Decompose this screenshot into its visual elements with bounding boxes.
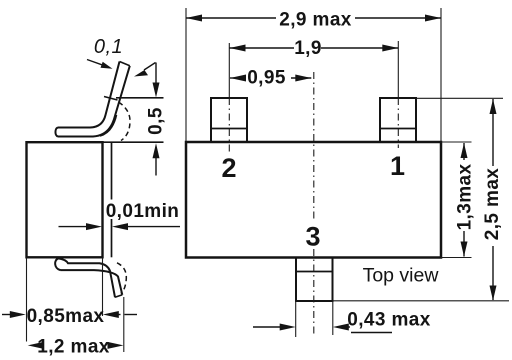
package body outline (top view): [186, 142, 441, 258]
lower lead alternate position (dashed arc): [117, 263, 126, 294]
dimension 2,5 max (vertical, far right): [416, 97, 503, 99]
dimension 1,3 max (vertical, right of body): [441, 141, 472, 143]
svg-text:1: 1: [390, 151, 405, 181]
body top line extension (0,5 lower reference): [103, 141, 164, 143]
svg-text:1,3max: 1,3max: [455, 164, 476, 231]
body centerline (through pin 3): [313, 72, 315, 221]
svg-text:Top view: Top view: [363, 265, 440, 287]
upper lead end cap: [55, 128, 58, 137]
svg-text:0,5: 0,5: [146, 107, 167, 135]
lower lead end cap: [55, 258, 60, 270]
package body outline (side view): [27, 142, 103, 257]
body right edge extension: [102, 258, 104, 317]
upper lead alternate position (dashed arc): [119, 102, 131, 141]
svg-text:0,95: 0,95: [247, 68, 286, 89]
dimension 1,2 max: [28, 342, 44, 349]
svg-text:0,85max: 0,85max: [27, 306, 105, 327]
pin 1 outline: [380, 98, 416, 142]
upper lead tip line: [120, 62, 130, 66]
lead tip extension: [123, 297, 125, 352]
pin 2 outline: [211, 98, 247, 142]
dimension 1,9: [230, 47, 295, 49]
leader arrow left (0,1): [87, 60, 103, 66]
svg-text:2,9 max: 2,9 max: [279, 10, 352, 31]
lower lead (bent down) upper edge: [59, 258, 116, 297]
leader arrow right (0,1): [144, 63, 156, 71]
svg-text:0,01min: 0,01min: [106, 201, 180, 222]
upper lead (bent up) inner edge: [58, 62, 120, 128]
lead plane vertical line: [111, 142, 113, 257]
pin 3 bend line: [296, 271, 333, 273]
lower lead tip line: [115, 295, 122, 298]
pin 2 centerline: [228, 43, 230, 97]
upper lead reference tick (0,5 level): [104, 97, 118, 101]
dimension 0,43 max (below pin 3): [295, 301, 297, 337]
upper lead outer edge: [58, 66, 130, 137]
svg-text:1,9: 1,9: [294, 38, 322, 59]
svg-text:1,2 max: 1,2 max: [37, 337, 110, 358]
dimension 0,5 (vertical): [116, 97, 164, 99]
dimension 2,9 max: [185, 8, 187, 141]
svg-text:2,5 max: 2,5 max: [482, 168, 503, 241]
dimension 0,01 min: [104, 200, 181, 220]
svg-text:0,43 max: 0,43 max: [347, 310, 431, 331]
svg-text:0,1: 0,1: [94, 36, 123, 58]
pin 1 centerline: [397, 41, 399, 97]
svg-text:3: 3: [305, 222, 320, 252]
pin 1 bend line: [380, 128, 416, 130]
upper lead far profile line: [100, 115, 117, 136]
dimension 0,85 max: [2, 314, 13, 316]
body left edge extension: [26, 258, 28, 342]
dimension 0,95: [230, 77, 246, 79]
pin 2 bend line: [211, 128, 247, 130]
pin 3 outline: [296, 258, 333, 302]
lower lead lower edge: [61, 270, 123, 295]
svg-text:2: 2: [221, 153, 236, 183]
